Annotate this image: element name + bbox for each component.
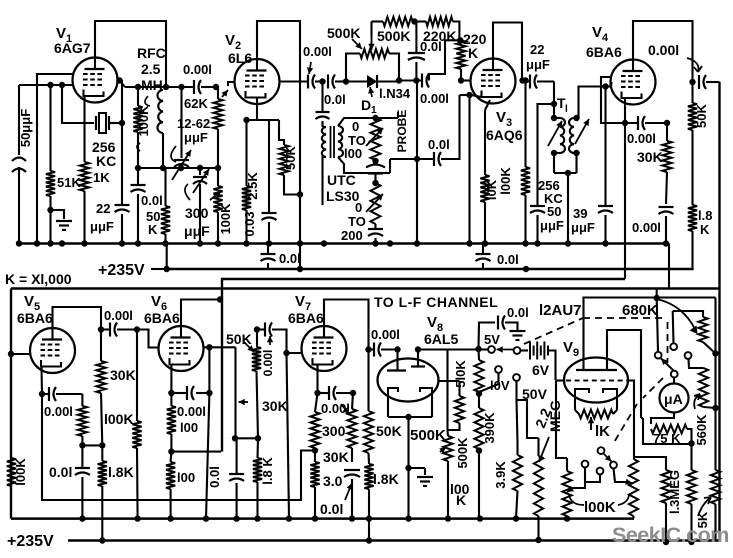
svg-text:TO: TO (348, 214, 366, 229)
svg-text:K: K (700, 222, 710, 237)
svg-text:μμF: μμF (184, 223, 210, 239)
wire V6 plate top (181, 296, 223, 326)
svg-text:500K: 500K (327, 25, 360, 41)
contact sw B (670, 311, 677, 350)
svg-text:0.0l: 0.0l (279, 251, 301, 266)
svg-text:0.00l: 0.00l (627, 131, 656, 146)
svg-text:200: 200 (341, 228, 363, 243)
capacitor 0.001 coupling V1-V2 (183, 62, 216, 94)
svg-text:V: V (563, 339, 573, 356)
svg-text:30K: 30K (110, 367, 136, 383)
svg-text:5l0K: 5l0K (453, 360, 468, 388)
resistor 50K V4 (688, 82, 709, 205)
capacitor 0.01 xfmr (316, 112, 330, 127)
wire V7 grid down (287, 353, 290, 519)
resistor 1K V1 cathode (80, 96, 89, 243)
resistor 510K divider (474, 349, 483, 392)
wire V1 right column (116, 77, 122, 204)
svg-text:6BA6: 6BA6 (144, 310, 180, 326)
wire V9 grid right (628, 381, 634, 460)
svg-text:30K: 30K (323, 449, 349, 465)
contact sw F (582, 461, 589, 468)
svg-text:0.00l: 0.00l (632, 220, 661, 235)
wire sw F stem (567, 468, 585, 493)
svg-text:K: K (468, 45, 478, 61)
resistor 2.2MEG (534, 437, 549, 543)
tube V9 (563, 339, 628, 403)
resistor 100K grid leak (133, 87, 151, 168)
svg-text:6V: 6V (532, 362, 550, 378)
wire left rail (10, 289, 12, 519)
wire right rail inner (714, 298, 716, 471)
capacitor 0.01 V7 (320, 470, 360, 519)
wire pot2 bottom (632, 518, 635, 520)
svg-text:2.5K: 2.5K (245, 172, 260, 200)
wire V7 cathode (314, 365, 320, 397)
capacitor 12-62uuF trimmer (171, 87, 210, 180)
wire V5 cathode frame (42, 394, 315, 500)
node V5 divider (79, 442, 105, 448)
node 680K (654, 289, 660, 302)
svg-text:V: V (151, 293, 161, 310)
resistor 100K V5 grid (7, 458, 28, 486)
node pot right (396, 77, 402, 83)
wire sw G stem (585, 475, 600, 483)
resistor 10K (480, 100, 499, 243)
svg-text:μA: μA (664, 391, 683, 407)
potentiometer 100K a (562, 458, 571, 519)
wire pot1 top (556, 381, 567, 459)
capacitor 0.01 50K leg (131, 168, 163, 243)
contact sw H (610, 462, 617, 469)
resistor 50K tank (161, 168, 170, 243)
node V3 grid (458, 77, 470, 83)
capacitor 0.001 V4 cathode (627, 116, 670, 146)
crystal 256KC (62, 85, 122, 169)
svg-text:l00K: l00K (13, 458, 28, 486)
svg-text:1: 1 (371, 105, 377, 116)
svg-text:0.00l: 0.00l (261, 350, 275, 377)
node x300 bus tie (297, 195, 303, 273)
label 500K pot (410, 427, 446, 444)
svg-text:V: V (225, 32, 235, 49)
resistor V5 cathode (78, 394, 87, 445)
wire V2 top loop (257, 21, 300, 195)
wire tank row (135, 165, 221, 171)
capacitor 50uuF 256KC (530, 104, 564, 243)
wire V1 plate row (120, 81, 195, 91)
V9 internals (566, 331, 631, 398)
resistor 30K (637, 123, 672, 204)
capacitor 0.01 V6 (207, 438, 244, 518)
svg-text:51K: 51K (57, 175, 81, 190)
svg-text:l00: l00 (180, 420, 198, 435)
svg-text:0.0l: 0.0l (428, 137, 450, 152)
capacitor 0.001 V7-V8 (369, 327, 400, 357)
wire V4 cathode down (624, 123, 626, 279)
wire V6 50K branch (232, 347, 288, 441)
capacitor 0.01 bus1 (261, 244, 301, 270)
resistor 1K hum (575, 397, 617, 440)
svg-text:l: l (565, 104, 568, 115)
wire V1 grid left (37, 74, 73, 243)
resistor 100 V6b (166, 452, 195, 519)
tube V3 (471, 59, 523, 144)
capacitor pot2 bottom (368, 229, 383, 243)
resistor 100K interstage (104, 330, 142, 519)
capacitor 0.001 V2 out (303, 44, 332, 89)
label K scale (5, 271, 72, 287)
svg-text:l0V: l0V (490, 378, 510, 393)
label 100K pots (569, 495, 629, 516)
node pot left (343, 78, 349, 84)
ground V1 cathode (51, 210, 73, 230)
wire 51K to bus (49, 210, 51, 243)
resistor 100K V2 grid (210, 186, 233, 243)
svg-text:V: V (496, 109, 506, 126)
svg-text:390K: 390K (482, 412, 497, 444)
svg-text:0.00l: 0.00l (104, 308, 133, 323)
svg-text:l.8K: l.8K (108, 464, 134, 480)
capacitor 0.001 V6 cathode (168, 386, 209, 435)
node 5V (475, 332, 500, 352)
svg-text:lK: lK (595, 423, 610, 440)
svg-text:μμF: μμF (184, 130, 208, 145)
V8 internals (387, 346, 432, 420)
wire V3 top loop (493, 23, 522, 81)
node V4 out (689, 79, 695, 85)
svg-text:0.0l: 0.0l (207, 466, 222, 488)
svg-text:30K: 30K (262, 398, 288, 414)
resistor 1.3MEG (661, 470, 682, 545)
capacitor 22uuF V3 out (523, 42, 555, 89)
svg-text:50μμF: 50μμF (18, 109, 33, 147)
wire V6 down (206, 393, 209, 519)
svg-text:SeekIC.com: SeekIC.com (612, 523, 729, 547)
svg-text:6BA6: 6BA6 (288, 310, 324, 326)
potentiometer 500K V8 (439, 430, 470, 519)
svg-text:560K: 560K (694, 414, 709, 446)
wire V9 plate left (584, 298, 716, 331)
wire 1.3MEG top (634, 457, 666, 470)
transformer T1 secondary (569, 115, 589, 173)
capacitor 0.01 V5 (49, 445, 90, 518)
svg-text:V: V (295, 293, 305, 310)
node res row mid (411, 18, 417, 24)
tube V4 (586, 24, 656, 105)
switch blade meter (661, 359, 674, 372)
transformer core (331, 126, 335, 158)
transformer T1 primary (548, 104, 565, 173)
capacitor 50uuF left rail (12, 85, 33, 243)
svg-text:1K: 1K (93, 170, 110, 185)
wire V9 grid (556, 379, 565, 381)
svg-text:50K: 50K (283, 145, 298, 169)
contact sw G (597, 468, 604, 475)
wire V5 cathode (39, 367, 45, 398)
node 50V (476, 447, 482, 518)
svg-text:0.00l: 0.00l (303, 44, 332, 59)
ground V8 (417, 468, 433, 486)
resistor 680K (673, 311, 719, 357)
label TO L-F CHANNEL (374, 294, 498, 310)
label 12AU7 (539, 302, 582, 319)
wire V1 plate top loop (95, 21, 166, 87)
svg-text:μμF: μμF (540, 218, 564, 233)
node probe in (319, 78, 325, 84)
tube V1 (54, 25, 118, 103)
wire 75K box (641, 418, 692, 444)
resistor 30K V5 (96, 330, 135, 446)
svg-text:μμF: μμF (571, 220, 595, 235)
node V6 plate (204, 344, 236, 350)
wire V5 grid (8, 351, 30, 357)
transformer UTC LS30 primary (322, 127, 360, 205)
svg-text:680K: 680K (622, 302, 658, 319)
svg-text:0.00l: 0.00l (44, 404, 73, 419)
svg-text:0.0l: 0.0l (141, 193, 163, 208)
capacitor pot bottom (366, 165, 385, 184)
node 10V (476, 390, 482, 396)
resistor 62K (184, 84, 228, 186)
svg-text:4: 4 (602, 32, 609, 44)
svg-text:2.5: 2.5 (141, 61, 161, 77)
svg-text:RFC: RFC (137, 45, 166, 61)
bus upper ground (16, 240, 669, 246)
svg-text:l00: l00 (344, 146, 362, 161)
capacitor 0.001 V6-V7 (257, 323, 302, 377)
svg-text:PROBE: PROBE (395, 110, 409, 153)
battery 6V (514, 342, 556, 381)
wire avc join (171, 451, 221, 453)
svg-text:0.00l: 0.00l (183, 62, 212, 77)
svg-text:300: 300 (322, 423, 346, 439)
svg-text:+235V: +235V (7, 533, 54, 550)
svg-text:5V: 5V (484, 332, 500, 347)
node V3 plate right (519, 77, 525, 83)
inductor RFC 2.5MH (137, 45, 166, 168)
potentiometer 0 TO 100 (366, 118, 383, 164)
resistor 75K meter (651, 413, 695, 447)
svg-text:6BA6: 6BA6 (17, 310, 53, 326)
svg-text:l2AU7: l2AU7 (539, 302, 582, 319)
capacitor 0.03 (242, 120, 277, 243)
wire right rail outer (718, 289, 720, 541)
diode D1 1N34 (346, 75, 411, 116)
svg-text:0.00l: 0.00l (648, 42, 679, 58)
wire V2 plate out (280, 80, 309, 82)
svg-text:MH: MH (141, 77, 163, 93)
svg-text:12-62: 12-62 (177, 116, 210, 131)
resistor 50K V7 (364, 350, 402, 465)
wire V4 top loop (633, 21, 693, 82)
svg-text:30K: 30K (637, 149, 663, 165)
capacitor 0.01 probe out (428, 95, 460, 166)
svg-text:l.8: l.8 (698, 208, 712, 223)
node pot2 top (372, 180, 378, 186)
wire V6 cathode (170, 365, 172, 394)
wire probe line (414, 81, 434, 244)
svg-text:6AL5: 6AL5 (424, 331, 458, 347)
wire lower frame top (11, 287, 720, 290)
tube V6 (144, 293, 204, 371)
resistor 100 V6a (167, 393, 176, 455)
potentiometer 0 TO 200 (341, 183, 383, 243)
svg-text:l.N34: l.N34 (379, 86, 411, 101)
svg-text:0.0l: 0.0l (49, 464, 72, 480)
capacitor 0.001 V7 cathode (318, 386, 357, 416)
resistor 1.8K V7 (364, 464, 398, 540)
svg-text:500K: 500K (455, 437, 470, 469)
svg-text:500K: 500K (410, 427, 446, 444)
tube V7 (288, 293, 347, 371)
tube V2 (225, 32, 280, 104)
capacitor 0.01 probe (324, 75, 346, 108)
contact sw C (671, 371, 678, 378)
resistor 1.8K V5 (98, 445, 134, 540)
svg-text:22: 22 (96, 201, 110, 216)
svg-text:V: V (24, 293, 34, 310)
wire T1 bottom (554, 170, 577, 243)
svg-text:39: 39 (573, 206, 587, 221)
meter uA (660, 377, 689, 413)
resistor 1.8K V6 (253, 438, 275, 518)
capacitor 0.001 V4 out (648, 42, 720, 89)
contact sw A (655, 352, 662, 359)
svg-text:l.8K: l.8K (373, 471, 399, 487)
wire right frame upper (718, 82, 720, 289)
capacitor 0.001 V5 coupling (101, 308, 137, 337)
resistor 560K (694, 368, 719, 446)
svg-text:6L6: 6L6 (228, 50, 252, 66)
curve 680K wiper (657, 299, 698, 334)
wire plus235 feed (98, 244, 170, 280)
svg-text:l.8 K: l.8 K (260, 457, 275, 485)
wire V8 cathode down (405, 417, 425, 520)
svg-text:100K: 100K (136, 105, 151, 137)
svg-text:3.9K: 3.9K (493, 461, 508, 489)
svg-text:0: 0 (352, 119, 359, 134)
probe bracket (395, 110, 409, 153)
wire avc line (222, 279, 625, 452)
wire V6 screen drop (206, 347, 212, 396)
resistor 3.9K (493, 400, 522, 519)
svg-text:0.0l: 0.0l (320, 501, 343, 517)
svg-text:50V: 50V (522, 386, 548, 402)
potentiometer 100K b (629, 459, 638, 519)
contact 50V (513, 374, 547, 438)
wire sw H stem (614, 469, 633, 485)
label 2.2MEG (532, 400, 563, 432)
bus lower ground (11, 515, 634, 521)
wire plus235 line (167, 266, 693, 272)
svg-text:100K: 100K (218, 203, 233, 235)
capacitor 0.001 V5 cathode (42, 387, 82, 419)
wire T1 sec to V4 grid (577, 83, 609, 118)
capacitor 0.01 bus2 (476, 244, 519, 270)
svg-text:l00K: l00K (584, 499, 616, 516)
potentiometer 500K top (327, 25, 399, 82)
wire V8 out right (418, 350, 479, 431)
resistor 390K (474, 394, 497, 449)
svg-text:6AQ6: 6AQ6 (486, 127, 523, 143)
wire V3 cathode (460, 92, 482, 244)
resistor 500K feedback (372, 17, 415, 44)
svg-text:50: 50 (547, 204, 561, 219)
svg-text:22: 22 (530, 42, 544, 57)
svg-text:6BA6: 6BA6 (586, 44, 622, 60)
contact sw D (685, 352, 704, 368)
wire 2.2MEG top (537, 438, 539, 456)
watermark (612, 523, 729, 547)
wire T1 top (551, 82, 568, 116)
svg-text:0.0l: 0.0l (507, 305, 529, 320)
wire V7 plate top (324, 300, 369, 350)
svg-text:50K: 50K (694, 103, 709, 127)
resistor 2.5K (242, 120, 260, 243)
node sec top (372, 115, 398, 121)
resistor 510K V8 (439, 360, 469, 430)
resistor 1.8K V4 (688, 205, 713, 269)
svg-text:l00K: l00K (498, 167, 513, 195)
svg-text:K: K (456, 492, 466, 508)
node crystal right (119, 120, 125, 126)
wire probe cap down (321, 82, 323, 113)
resistor 220K feedback (415, 17, 460, 44)
resistor meter leg (687, 444, 696, 546)
svg-text:μμF: μμF (90, 219, 114, 234)
svg-text:500K: 500K (377, 28, 410, 44)
svg-text:0.00l: 0.00l (371, 327, 400, 342)
bus 235V lower (7, 533, 720, 550)
capacitor 0.001 30K (632, 207, 674, 244)
wire V4 cathode row (601, 98, 638, 126)
wire V4 screen loop (601, 77, 611, 123)
svg-text:50K: 50K (376, 423, 402, 439)
svg-text:l.3MEG: l.3MEG (667, 470, 682, 514)
svg-text:0: 0 (355, 200, 362, 215)
wire V9 plate right (607, 330, 641, 418)
svg-text:D: D (361, 97, 371, 113)
capacitor 300uuF trimmer (184, 165, 210, 243)
capacitor 39uuF (571, 87, 613, 244)
svg-text:0.03: 0.03 (242, 211, 257, 236)
capacitor 22uuF (90, 170, 130, 243)
svg-text:TO L-F CHANNEL: TO L-F CHANNEL (374, 294, 498, 310)
svg-text:l00K: l00K (104, 411, 134, 427)
contact 10V (479, 366, 510, 393)
label 680K (622, 302, 658, 319)
tube V5 (17, 293, 75, 373)
resistor 100K V3 plate (498, 77, 530, 243)
wire V5 plate top (53, 307, 102, 330)
svg-text:K = Xl,000: K = Xl,000 (5, 271, 72, 287)
transformer secondary (338, 118, 376, 173)
svg-text:0.0l: 0.0l (324, 92, 346, 107)
svg-text:UTC: UTC (327, 172, 356, 188)
svg-text:3.0: 3.0 (323, 473, 343, 489)
svg-text:0.0l: 0.0l (420, 39, 442, 54)
svg-text:0.00l: 0.00l (420, 91, 449, 106)
svg-text:300: 300 (185, 205, 209, 221)
wire V4 grid (606, 82, 612, 87)
node V5 plate (98, 326, 104, 332)
svg-text:K: K (148, 222, 158, 237)
wire sec right (376, 159, 418, 173)
wire V7 out (365, 346, 371, 352)
resistor 30K V7 (323, 393, 357, 465)
wire bus wrap right (668, 244, 670, 289)
